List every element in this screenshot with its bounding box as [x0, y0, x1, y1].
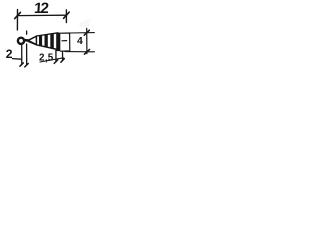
tick: top end of dimension 4 — [84, 30, 89, 35]
wire: extension line from end cap — [62, 51, 64, 60]
wire: dimension line 2,5 — [40, 58, 64, 62]
wire: left extension line of dimension 12 — [16, 10, 18, 30]
coil 4 bar — [50, 34, 54, 49]
wire end dash inside end cap — [62, 40, 67, 42]
svg-text:12: 12 — [33, 0, 49, 17]
wire: dimension line 12 — [17, 14, 66, 16]
tick: right end of dimension 2 — [25, 64, 28, 67]
coil 3 bar — [45, 34, 48, 47]
cone top outline — [36, 33, 58, 36]
svg-text:5: 5 — [48, 53, 54, 64]
wire: dimension line 4 — [86, 28, 88, 53]
wire: extension line from base coil — [55, 51, 57, 62]
tick: right end of dimension 12 — [64, 12, 70, 18]
tick: bottom end of dimension 4 — [84, 49, 89, 54]
coil 5 base bar — [56, 33, 60, 51]
svg-text:2: 2 — [6, 47, 13, 61]
end cap rectangle — [60, 33, 70, 51]
tick: left end of dimension 2 — [20, 63, 23, 66]
cone bottom outline — [28, 41, 58, 49]
wire: dimension line 2 — [12, 58, 21, 61]
wire: right extension line of dimension 12 — [65, 10, 67, 23]
wire: extension line from eye bottom — [21, 46, 23, 65]
wire: bottom extension line of dimension 4 — [65, 51, 95, 53]
coil 1 outline triangle at tip — [28, 36, 36, 44]
coil 2 bar — [39, 35, 42, 46]
svg-text:4: 4 — [77, 36, 83, 47]
wire: extension line stub above cone tip — [26, 31, 28, 34]
wire: stem from eye to cone apex — [24, 39, 28, 42]
tick: left end of dimension 12 — [15, 12, 21, 18]
faint scan smudge — [79, 22, 90, 28]
loop: wire eye at cone tip — [18, 38, 24, 44]
wire: top extension line of dimension 4 — [70, 32, 94, 34]
tick: right end of dimension 2,5 — [61, 59, 64, 63]
wire: extension line below cone tip — [26, 44, 28, 65]
tick: left end of dimension 2,5 — [54, 60, 58, 64]
